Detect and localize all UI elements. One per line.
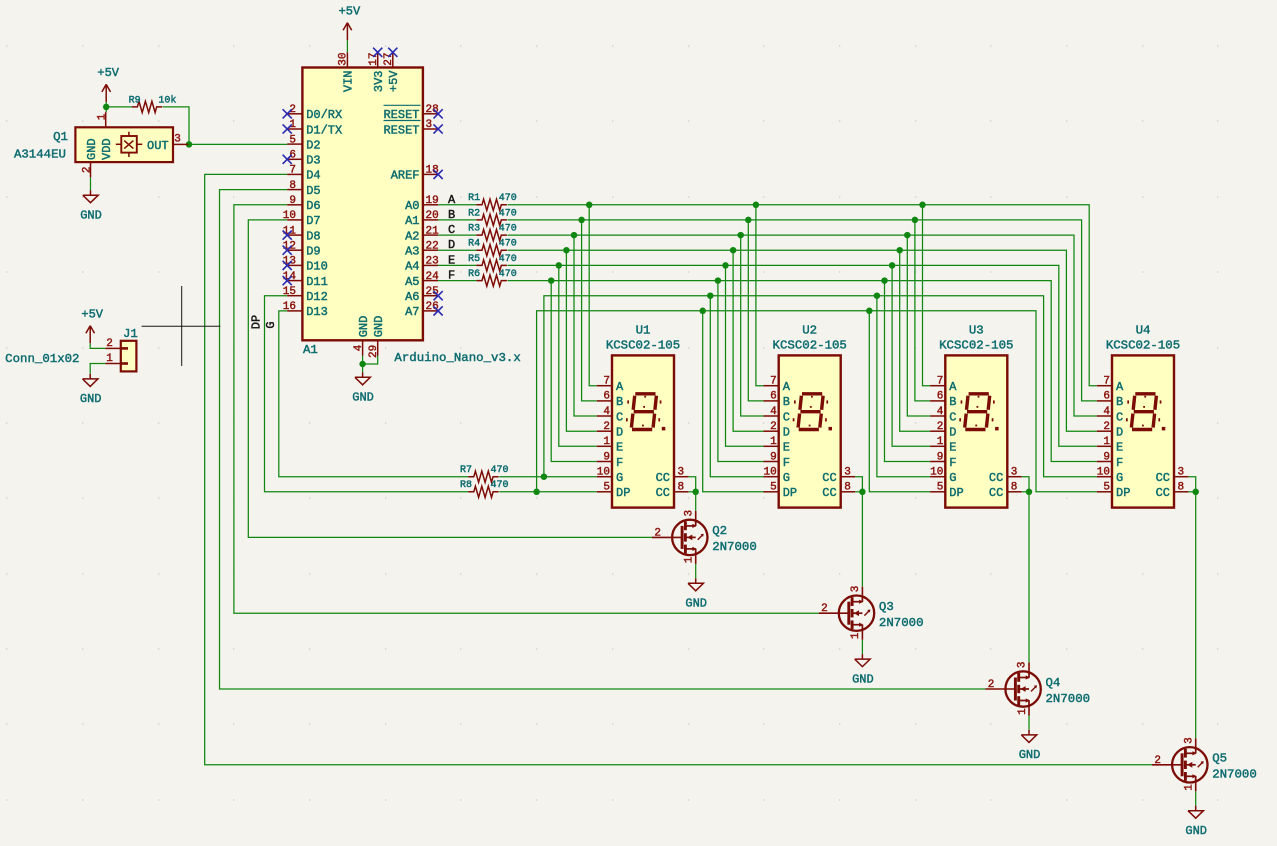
svg-text:17: 17 — [368, 52, 380, 65]
svg-text:23: 23 — [426, 256, 439, 268]
svg-text:GND: GND — [1185, 824, 1207, 838]
svg-text:2N7000: 2N7000 — [1212, 768, 1257, 782]
svg-text:D: D — [448, 238, 455, 252]
svg-text:F: F — [783, 456, 790, 470]
svg-text:A3: A3 — [405, 245, 419, 259]
svg-text:D1/TX: D1/TX — [306, 123, 342, 137]
svg-text:A2: A2 — [405, 229, 419, 243]
svg-text:GND: GND — [372, 316, 386, 338]
svg-text:R5: R5 — [468, 254, 480, 265]
svg-text:470: 470 — [491, 480, 509, 491]
svg-text:E: E — [949, 441, 956, 455]
svg-text:3: 3 — [1017, 661, 1029, 668]
svg-text:GND: GND — [852, 672, 874, 686]
svg-text:CC: CC — [1156, 471, 1170, 485]
svg-text:VDD: VDD — [100, 138, 114, 160]
svg-text:B: B — [448, 208, 455, 222]
svg-text:2: 2 — [988, 679, 995, 691]
svg-text:10: 10 — [763, 467, 776, 479]
svg-text:+5V: +5V — [387, 70, 401, 92]
svg-text:3: 3 — [1178, 466, 1185, 478]
svg-text:G: G — [616, 471, 623, 485]
svg-text:5: 5 — [603, 482, 610, 494]
svg-text:6: 6 — [1103, 391, 1110, 403]
svg-text:7: 7 — [770, 376, 777, 388]
svg-text:KCSC02-105: KCSC02-105 — [773, 338, 847, 352]
svg-text:J1: J1 — [123, 327, 138, 341]
svg-text:DP: DP — [949, 486, 963, 500]
svg-text:C: C — [783, 410, 790, 424]
svg-text:10: 10 — [597, 467, 610, 479]
svg-text:D: D — [1116, 426, 1123, 440]
svg-text:20: 20 — [426, 210, 439, 222]
svg-text:4: 4 — [937, 406, 944, 418]
svg-text:Q1: Q1 — [53, 130, 68, 144]
svg-text:A: A — [616, 380, 624, 394]
svg-text:GND: GND — [85, 138, 99, 160]
svg-text:VIN: VIN — [342, 71, 356, 93]
svg-text:5: 5 — [289, 134, 296, 146]
svg-text:C: C — [448, 223, 455, 237]
svg-text:Q5: Q5 — [1212, 752, 1227, 766]
svg-text:CC: CC — [822, 471, 836, 485]
svg-text:+5V: +5V — [97, 66, 119, 80]
svg-text:16: 16 — [283, 301, 296, 313]
svg-text:B: B — [1116, 395, 1123, 409]
svg-text:2: 2 — [770, 421, 777, 433]
svg-text:1: 1 — [850, 632, 862, 639]
svg-text:C: C — [1116, 410, 1123, 424]
svg-text:5: 5 — [770, 482, 777, 494]
svg-text:21: 21 — [426, 225, 440, 237]
svg-text:470: 470 — [499, 254, 517, 265]
svg-text:470: 470 — [499, 224, 517, 235]
svg-text:DP: DP — [783, 486, 797, 500]
svg-text:CC: CC — [656, 486, 670, 500]
svg-text:A0: A0 — [405, 199, 419, 213]
svg-text:B: B — [616, 395, 623, 409]
svg-text:D: D — [949, 426, 956, 440]
svg-text:470: 470 — [499, 193, 517, 204]
svg-text:1: 1 — [97, 113, 109, 120]
svg-text:2: 2 — [654, 527, 661, 539]
svg-text:R2: R2 — [468, 208, 480, 219]
svg-text:3: 3 — [850, 586, 862, 593]
svg-text:GND: GND — [80, 209, 102, 223]
svg-text:R6: R6 — [468, 269, 480, 280]
svg-text:9: 9 — [770, 451, 777, 463]
svg-text:22: 22 — [426, 240, 439, 252]
svg-text:DP: DP — [616, 486, 630, 500]
svg-text:1: 1 — [603, 436, 610, 448]
svg-text:A1: A1 — [405, 214, 419, 228]
svg-text:1: 1 — [770, 436, 777, 448]
svg-text:29: 29 — [368, 345, 380, 358]
svg-text:A: A — [949, 380, 957, 394]
svg-text:D9: D9 — [306, 245, 320, 259]
svg-text:CC: CC — [989, 486, 1003, 500]
svg-text:KCSC02-105: KCSC02-105 — [1106, 338, 1180, 352]
svg-text:OUT: OUT — [147, 139, 169, 153]
svg-text:U4: U4 — [1136, 324, 1151, 338]
svg-text:A1: A1 — [303, 343, 318, 357]
svg-text:15: 15 — [283, 286, 296, 298]
svg-text:27: 27 — [383, 52, 395, 65]
svg-text:F: F — [949, 456, 956, 470]
svg-text:10k: 10k — [158, 95, 176, 107]
svg-text:4: 4 — [770, 406, 777, 418]
svg-text:R8: R8 — [460, 480, 472, 491]
svg-text:E: E — [448, 253, 455, 267]
svg-text:D5: D5 — [306, 184, 320, 198]
svg-text:3: 3 — [678, 466, 685, 478]
svg-text:6: 6 — [937, 391, 944, 403]
svg-text:470: 470 — [499, 208, 517, 219]
svg-text:2N7000: 2N7000 — [1046, 692, 1091, 706]
svg-text:R1: R1 — [468, 193, 480, 204]
svg-text:8: 8 — [1178, 481, 1185, 493]
svg-text:D10: D10 — [306, 260, 328, 274]
svg-text:1: 1 — [1017, 708, 1029, 715]
svg-text:2N7000: 2N7000 — [712, 540, 757, 554]
svg-text:14: 14 — [283, 271, 297, 283]
svg-text:2: 2 — [81, 166, 93, 173]
svg-text:AREF: AREF — [391, 169, 420, 183]
svg-text:4: 4 — [603, 406, 610, 418]
svg-text:D4: D4 — [306, 169, 320, 183]
svg-text:470: 470 — [491, 465, 509, 476]
svg-text:A: A — [1116, 380, 1124, 394]
svg-text:D2: D2 — [306, 138, 320, 152]
svg-text:3: 3 — [1011, 466, 1018, 478]
svg-text:GND: GND — [685, 597, 707, 611]
svg-text:D13: D13 — [306, 305, 328, 319]
svg-text:9: 9 — [603, 451, 610, 463]
svg-text:3: 3 — [1183, 737, 1195, 744]
svg-text:KCSC02-105: KCSC02-105 — [939, 338, 1013, 352]
svg-text:GND: GND — [357, 316, 371, 338]
svg-text:10: 10 — [1097, 467, 1110, 479]
svg-text:G: G — [1116, 471, 1123, 485]
svg-text:A: A — [783, 380, 791, 394]
svg-text:D8: D8 — [306, 229, 320, 243]
svg-text:RESET: RESET — [383, 123, 419, 137]
svg-text:12: 12 — [283, 240, 296, 252]
svg-text:B: B — [783, 395, 790, 409]
svg-text:Q3: Q3 — [879, 600, 894, 614]
svg-text:Q4: Q4 — [1046, 676, 1061, 690]
svg-text:C: C — [949, 410, 956, 424]
svg-text:9: 9 — [1103, 451, 1110, 463]
svg-text:U1: U1 — [636, 324, 651, 338]
svg-text:8: 8 — [289, 180, 296, 192]
svg-text:2: 2 — [603, 421, 610, 433]
svg-text:2: 2 — [937, 421, 944, 433]
svg-text:6: 6 — [603, 391, 610, 403]
svg-text:5: 5 — [937, 482, 944, 494]
svg-text:1: 1 — [937, 436, 944, 448]
svg-text:D: D — [783, 426, 790, 440]
svg-text:8: 8 — [678, 481, 685, 493]
svg-text:R9: R9 — [129, 96, 141, 107]
svg-text:CC: CC — [989, 471, 1003, 485]
svg-text:13: 13 — [283, 256, 296, 268]
svg-text:Arduino_Nano_v3.x: Arduino_Nano_v3.x — [394, 351, 520, 365]
svg-text:7: 7 — [1103, 376, 1110, 388]
svg-text:2: 2 — [1103, 421, 1110, 433]
svg-text:470: 470 — [499, 269, 517, 280]
svg-text:9: 9 — [289, 195, 296, 207]
svg-text:10: 10 — [283, 210, 296, 222]
svg-text:E: E — [783, 441, 790, 455]
svg-text:D0/RX: D0/RX — [306, 108, 342, 122]
svg-text:D7: D7 — [306, 214, 320, 228]
svg-text:B: B — [949, 395, 956, 409]
svg-text:19: 19 — [426, 195, 439, 207]
svg-text:A: A — [448, 193, 456, 207]
svg-text:G: G — [949, 471, 956, 485]
svg-text:8: 8 — [844, 481, 851, 493]
svg-text:Q2: Q2 — [712, 524, 727, 538]
svg-text:F: F — [448, 269, 455, 283]
svg-text:7: 7 — [937, 376, 944, 388]
svg-text:3: 3 — [844, 466, 851, 478]
svg-text:F: F — [1116, 456, 1123, 470]
svg-text:1: 1 — [1184, 784, 1196, 791]
svg-text:C: C — [616, 410, 623, 424]
svg-text:+5V: +5V — [81, 307, 103, 321]
svg-text:GND: GND — [1019, 748, 1041, 762]
svg-text:9: 9 — [937, 451, 944, 463]
svg-text:E: E — [616, 441, 623, 455]
svg-text:G: G — [783, 471, 790, 485]
svg-text:A7: A7 — [405, 305, 419, 319]
svg-text:GND: GND — [352, 391, 374, 405]
svg-text:1: 1 — [1103, 436, 1110, 448]
svg-text:10: 10 — [930, 467, 943, 479]
svg-text:24: 24 — [426, 271, 440, 283]
svg-text:D12: D12 — [306, 290, 328, 304]
svg-text:CC: CC — [1156, 486, 1170, 500]
svg-text:4: 4 — [1103, 406, 1110, 418]
svg-text:U3: U3 — [969, 324, 984, 338]
svg-text:U2: U2 — [802, 324, 817, 338]
svg-text:A3144EU: A3144EU — [14, 148, 66, 162]
svg-text:CC: CC — [656, 471, 670, 485]
svg-text:A6: A6 — [405, 290, 419, 304]
svg-text:D6: D6 — [306, 199, 320, 213]
svg-text:DP: DP — [250, 315, 264, 329]
svg-text:R4: R4 — [468, 239, 480, 250]
svg-text:A4: A4 — [405, 260, 419, 274]
svg-text:8: 8 — [1011, 481, 1018, 493]
svg-text:1: 1 — [106, 353, 113, 365]
svg-text:E: E — [1116, 441, 1123, 455]
svg-text:2N7000: 2N7000 — [879, 616, 924, 630]
svg-text:D: D — [616, 426, 623, 440]
svg-text:7: 7 — [289, 165, 296, 177]
svg-text:GND: GND — [80, 392, 102, 406]
svg-text:6: 6 — [770, 391, 777, 403]
svg-text:5: 5 — [1103, 482, 1110, 494]
svg-text:3: 3 — [174, 134, 181, 146]
svg-text:CC: CC — [822, 486, 836, 500]
svg-text:4: 4 — [353, 344, 365, 351]
svg-text:3: 3 — [683, 510, 695, 517]
svg-text:1: 1 — [684, 556, 696, 563]
svg-text:R7: R7 — [460, 465, 472, 476]
svg-text:30: 30 — [338, 52, 350, 65]
svg-text:D3: D3 — [306, 154, 320, 168]
svg-text:D11: D11 — [306, 275, 328, 289]
svg-text:7: 7 — [603, 376, 610, 388]
svg-text:A5: A5 — [405, 275, 419, 289]
svg-text:R3: R3 — [468, 224, 480, 235]
svg-text:2: 2 — [821, 603, 828, 615]
svg-text:3: 3 — [426, 119, 433, 131]
svg-text:2: 2 — [106, 338, 113, 350]
svg-text:F: F — [616, 456, 623, 470]
svg-text:+5V: +5V — [339, 5, 361, 19]
svg-text:11: 11 — [283, 225, 297, 237]
svg-text:2: 2 — [1154, 755, 1161, 767]
svg-text:DP: DP — [1116, 486, 1130, 500]
svg-text:3V3: 3V3 — [372, 71, 386, 93]
svg-text:G: G — [264, 321, 278, 328]
svg-text:470: 470 — [499, 239, 517, 250]
svg-text:KCSC02-105: KCSC02-105 — [606, 338, 680, 352]
svg-text:Conn_01x02: Conn_01x02 — [5, 352, 79, 366]
